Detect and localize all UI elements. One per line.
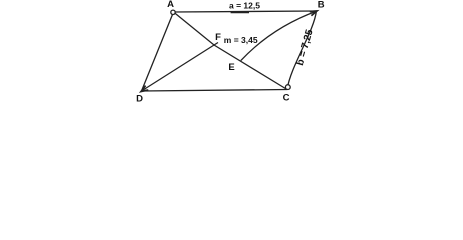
underline under 12,5	[231, 11, 249, 13]
node C circle marker	[285, 85, 290, 90]
svg-text:E: E	[228, 62, 234, 73]
svg-text:m = 3,45: m = 3,45	[224, 35, 258, 45]
wire side BC	[287, 11, 317, 90]
wire segment D-F	[142, 43, 219, 92]
svg-text:a = 12,5: a = 12,5	[229, 0, 260, 10]
svg-text:D: D	[136, 94, 143, 105]
wire side DA	[142, 12, 174, 91]
svg-text:F: F	[215, 32, 221, 43]
wire segment E-B	[241, 11, 317, 61]
svg-text:A: A	[167, 0, 174, 10]
svg-text:C: C	[283, 92, 290, 103]
node A circle marker	[171, 10, 175, 14]
arrowhead at B	[310, 11, 317, 16]
arrowhead at D	[141, 86, 148, 92]
wire diagonal A-F-C	[174, 12, 288, 90]
wire side CD	[142, 90, 288, 92]
wire side AB	[174, 11, 318, 12]
svg-text:B: B	[318, 0, 325, 11]
